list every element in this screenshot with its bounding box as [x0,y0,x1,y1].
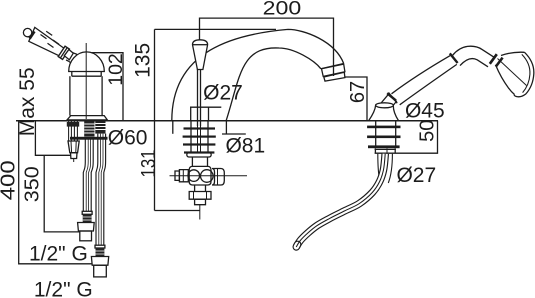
right nut below [374,148,376,153]
svg-text:Ø81: Ø81 [225,134,265,157]
handle ridge [30,31,35,38]
svg-text:400: 400 [0,160,20,200]
spout outlet [322,64,345,76]
left mid threaded block [84,121,94,136]
svg-text:1/2" G: 1/2" G [29,242,88,265]
diverter knob [193,40,208,70]
shower holder cone [369,105,399,120]
dim 67 bracket [345,77,367,121]
shower hose top flares [378,154,380,181]
faucet base [67,116,107,120]
dim 350 bracket [44,155,79,232]
valve right hex [212,169,224,186]
dim 50 bracket [375,121,438,153]
center shank below deck [190,121,192,152]
spout outer arc [172,29,344,120]
bell top edge [501,52,525,55]
faucet body [69,76,71,115]
left cone nut [68,141,79,153]
svg-text:131: 131 [138,150,160,178]
svg-text:102: 102 [105,53,127,86]
dim O27 bracket center [190,106,221,108]
deck line [16,120,438,122]
valve lower neck [195,185,206,192]
center collar [187,153,211,157]
shower hose [296,154,385,247]
handle ball [23,28,31,36]
handle lever [29,27,65,56]
faucet neck groove [72,72,101,77]
right hose end [95,245,105,248]
dim 135/131 vertical [154,29,156,210]
valve centerline [170,175,248,177]
center tube [191,157,193,166]
diverter valve body [189,166,211,185]
bell seam [498,59,527,86]
left hose end [82,211,92,214]
dim 400 bracket [19,121,92,264]
shower handle [392,56,451,94]
dim 102 [90,53,123,121]
dim Max55 bracket [35,122,71,156]
shower butt [380,95,397,112]
svg-text:Max 55: Max 55 [16,67,39,136]
handle top band [450,53,458,63]
dim O81 bracket [172,121,174,134]
right below-deck washers [367,126,400,129]
center washer bars [184,127,216,129]
elbow [73,53,85,63]
svg-text:50: 50 [417,120,439,142]
left right threaded block [95,121,105,134]
faucet centerline [85,43,87,119]
svg-text:Ø27: Ø27 [203,82,243,105]
dim 135 horizontal [155,28,277,30]
svg-text:Ø60: Ø60 [108,127,148,150]
svg-text:350: 350 [22,166,44,202]
svg-text:Ø27: Ø27 [396,164,436,187]
svg-text:1/2" G: 1/2" G [34,278,93,298]
bell face rim [514,52,534,97]
left supply hose [83,139,85,211]
bell bottom contour [496,65,515,95]
svg-text:135: 135 [132,43,155,78]
valve bottom nut [189,192,211,200]
shower neck [453,46,495,57]
diverter rod [197,69,199,126]
rod tail [199,205,201,220]
right supply hose [96,134,98,246]
svg-text:67: 67 [347,81,369,103]
valve tip [195,199,206,205]
faucet dome [69,52,105,72]
left below-deck: supply tube left [67,121,79,141]
dim 131 bottom tick [155,210,200,212]
neck collar [490,54,497,64]
svg-text:Ø45: Ø45 [405,100,445,123]
spout end face [321,64,344,69]
handle neck to elbow [64,50,73,60]
svg-text:200: 200 [263,0,302,20]
handle collar [58,46,69,59]
left washer bar [70,137,108,140]
dim 200 line [200,18,334,76]
spout inner arc [226,48,321,121]
valve left hex [179,170,188,182]
